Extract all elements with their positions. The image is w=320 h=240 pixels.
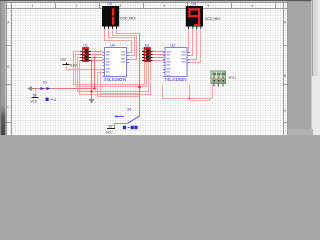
svg-text:74LS192N: 74LS192N <box>104 77 127 83</box>
svg-text:S4: S4 <box>127 107 131 111</box>
svg-text:U1: U1 <box>84 43 88 47</box>
svg-text:U2: U2 <box>171 43 175 47</box>
svg-text:5.0V: 5.0V <box>70 63 77 67</box>
svg-text:U4: U4 <box>110 43 114 47</box>
svg-text:DCD_HEX: DCD_HEX <box>120 16 136 20</box>
svg-text:VCC: VCC <box>31 100 38 104</box>
svg-text:6: 6 <box>252 4 254 8</box>
svg-text:74LS192N: 74LS192N <box>164 77 187 83</box>
svg-text:VCC: VCC <box>106 130 113 134</box>
svg-text:2: 2 <box>76 4 78 8</box>
svg-text:U6: U6 <box>191 2 196 6</box>
svg-text:3: 3 <box>120 4 122 8</box>
svg-text:4: 4 <box>164 4 166 8</box>
svg-text:DCD_HEX: DCD_HEX <box>205 17 221 21</box>
svg-text:U5: U5 <box>107 2 112 6</box>
svg-text:U3: U3 <box>145 43 149 47</box>
svg-text:VDD: VDD <box>60 57 67 61</box>
svg-text:5: 5 <box>208 4 210 8</box>
svg-text:1: 1 <box>32 4 34 8</box>
svg-text:S3: S3 <box>43 81 47 85</box>
svg-text:XFG1: XFG1 <box>229 76 237 80</box>
